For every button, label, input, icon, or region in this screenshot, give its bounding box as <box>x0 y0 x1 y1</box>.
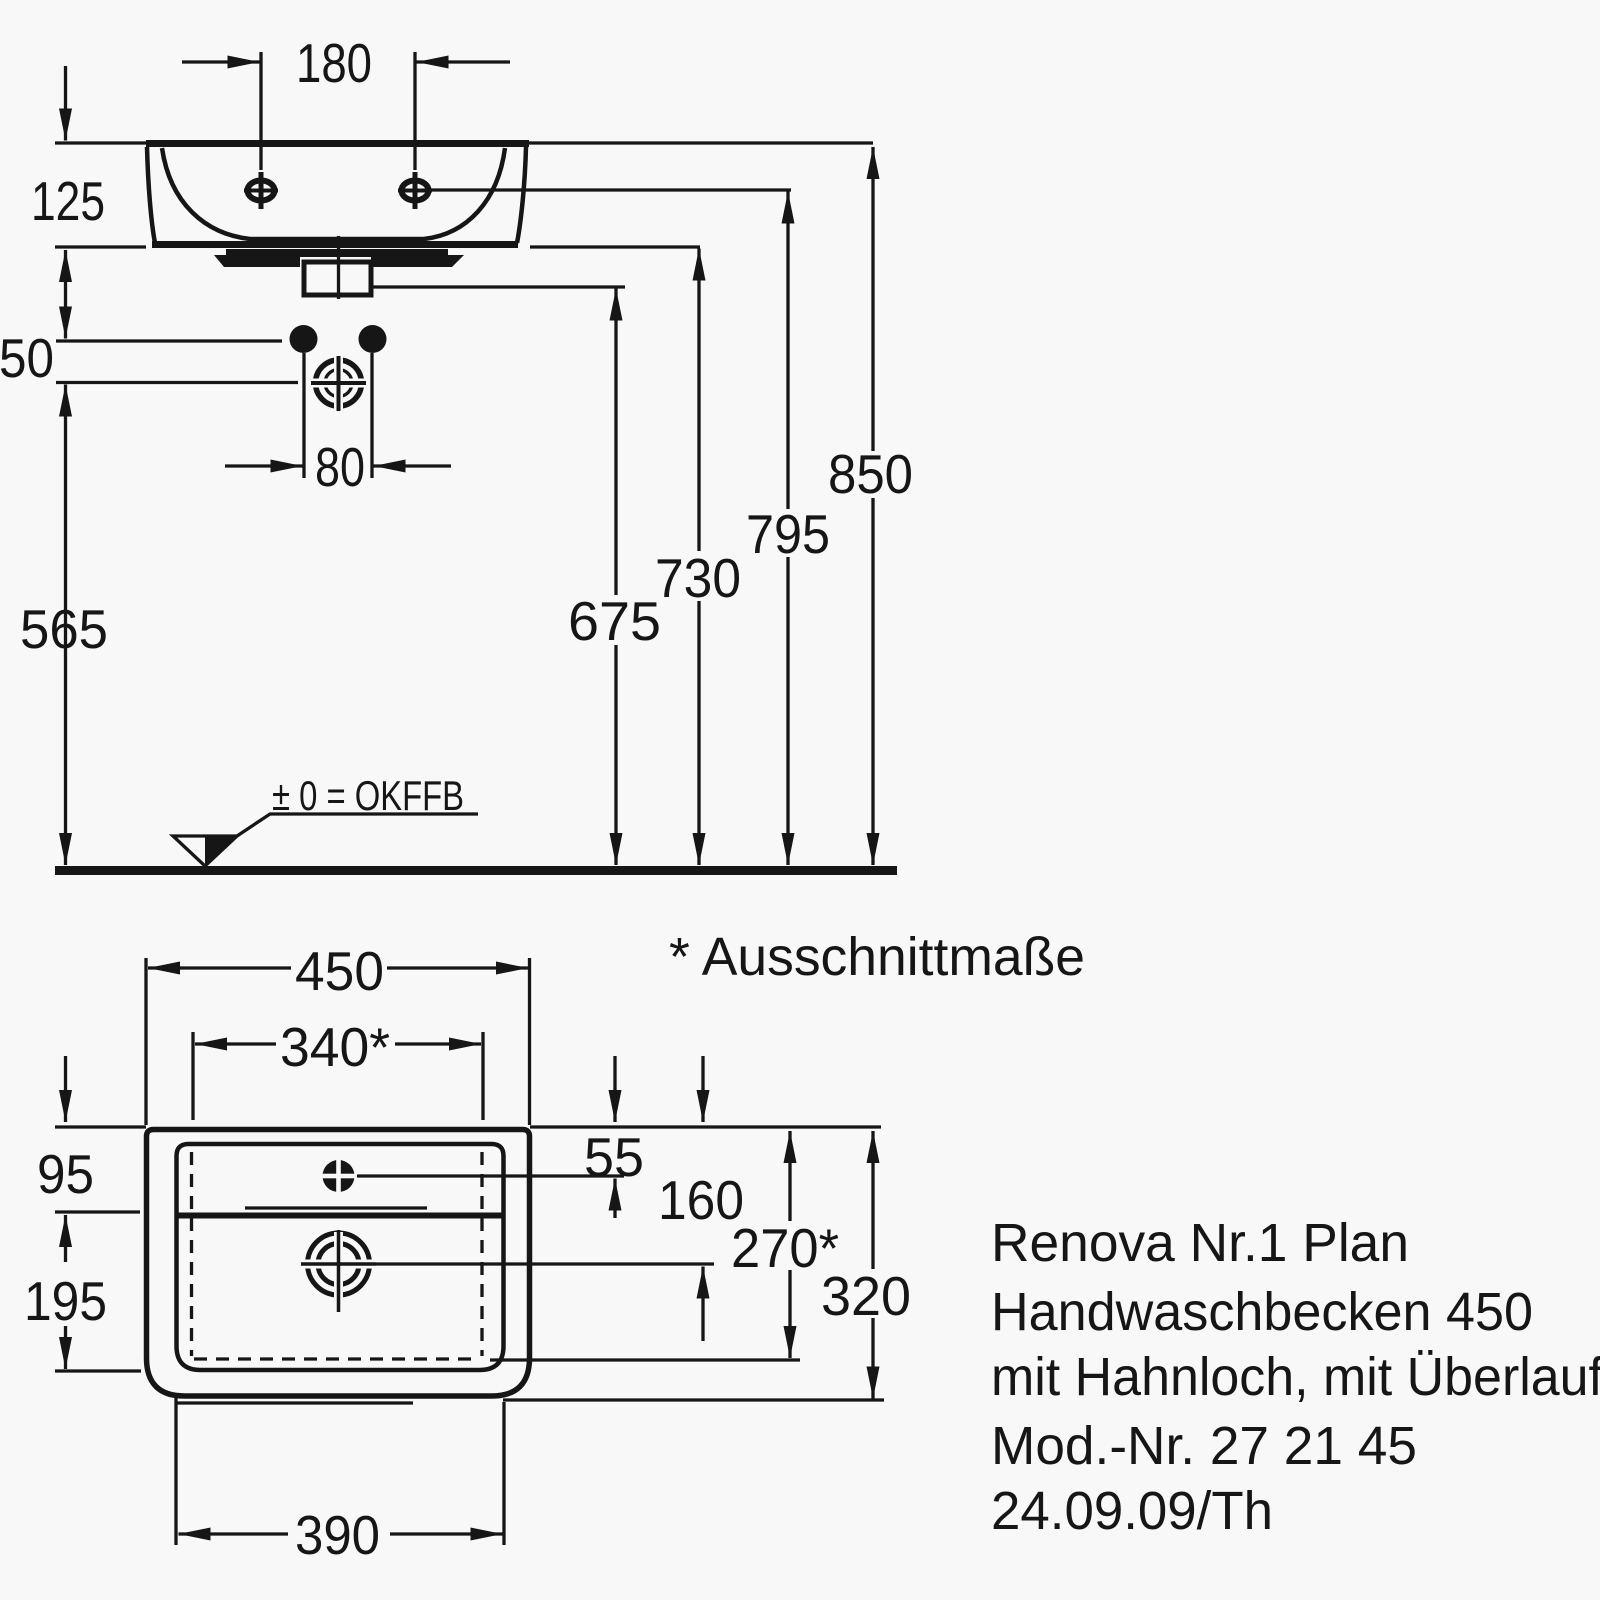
wire: plan left ref y=1212 (deck front) <box>55 1210 140 1213</box>
dim 270 vertical <box>788 1131 791 1358</box>
basin cutout dashed left <box>190 1152 193 1356</box>
plan drain <box>301 1230 376 1312</box>
svg-text:Mod.-Nr. 27 21 45: Mod.-Nr. 27 21 45 <box>991 1416 1417 1476</box>
dim 390 tick right <box>502 1402 505 1545</box>
plan outer outline <box>147 1130 530 1397</box>
wire: faucet leader y=1176 <box>357 1174 624 1177</box>
sink body top edge (bold) <box>146 140 529 147</box>
dim 340 right arrow <box>395 1042 481 1045</box>
wire: plan left ref y=1371 (basin rear) <box>55 1369 141 1372</box>
dim 180 right arrow <box>417 60 511 63</box>
label 795 <box>741 503 836 565</box>
wire: faucet-hole leader y=190 (795 ref) <box>429 188 791 191</box>
svg-text:850: 850 <box>828 443 913 505</box>
dim 80 left arrow <box>225 464 303 467</box>
dim 55 top arrow <box>613 1056 616 1122</box>
label 270 <box>726 1217 843 1279</box>
svg-text:195: 195 <box>24 1270 107 1332</box>
wire: plan bottom reference y=1400 <box>503 1398 884 1401</box>
sink body left edge <box>147 147 155 243</box>
ground line <box>55 866 897 875</box>
dim 160 bottom arrow <box>701 1267 704 1342</box>
svg-text:390: 390 <box>295 1504 380 1566</box>
dim 55 bottom arrow <box>613 1179 616 1219</box>
dim 180 tick right <box>413 52 416 170</box>
label 320 <box>816 1265 916 1327</box>
label 850 <box>823 443 919 505</box>
svg-text:795: 795 <box>746 503 830 565</box>
dim 730 vertical <box>697 249 700 866</box>
wire: holes leader line y=341 <box>56 339 282 342</box>
svg-text:Renova Nr.1 Plan: Renova Nr.1 Plan <box>991 1213 1409 1273</box>
dim 565 vertical line <box>64 385 67 866</box>
dim 450 tick left <box>144 958 147 1125</box>
wire: sink bottom reference y=246 left segment <box>55 245 146 248</box>
wire: top reference line y=143 (850 ref) <box>55 141 873 144</box>
plan inner rim outline <box>177 1144 504 1370</box>
drain box centerline <box>337 236 340 299</box>
dim 390 left arrow <box>179 1532 289 1535</box>
dim 95 top arrow <box>64 1056 67 1122</box>
wire: sink bottom reference y=246 right segment (730 ref) <box>530 245 700 248</box>
wire: plan left ref y=1127 <box>55 1125 146 1128</box>
dim 80 tick right <box>370 353 373 478</box>
dim 850 vertical <box>871 147 874 865</box>
dim 180 tick left <box>259 52 262 170</box>
dim 320 vertical <box>871 1131 874 1399</box>
dim 125/holes double arrow <box>64 250 67 339</box>
sink body bottom edge (bold) <box>152 241 518 248</box>
dim 675 vertical <box>614 289 617 866</box>
svg-text:± 0 = OKFFB: ± 0 = OKFFB <box>272 772 464 819</box>
dim 340 tick right <box>481 1032 484 1120</box>
svg-text:80: 80 <box>315 436 365 498</box>
mounting hole right (filled) <box>359 325 387 353</box>
dim 195 top arrow <box>64 1215 67 1262</box>
svg-text:125: 125 <box>31 170 105 232</box>
dim 340 tick left <box>191 1032 194 1120</box>
dim 80 right arrow <box>374 464 452 467</box>
svg-text:180: 180 <box>296 32 372 94</box>
svg-text:675: 675 <box>568 590 661 652</box>
dim 160 top arrow <box>701 1056 704 1122</box>
dim 340 left arrow <box>195 1042 276 1045</box>
dim 390 tick left <box>174 1398 177 1545</box>
svg-text:* Ausschnittmaße: * Ausschnittmaße <box>669 927 1085 987</box>
dim 390 right arrow <box>390 1532 503 1535</box>
svg-text:450: 450 <box>295 940 384 1002</box>
svg-text:50: 50 <box>0 327 54 389</box>
basin cutout dashed right <box>480 1152 483 1356</box>
dim 195 bottom arrow <box>64 1326 67 1369</box>
wire: drain leader y=1264 <box>376 1262 714 1265</box>
svg-text:55: 55 <box>584 1126 644 1188</box>
dim 795 vertical <box>786 192 789 866</box>
faucet hole right (elevation) <box>398 172 432 209</box>
basin cutout dashed bottom <box>194 1357 479 1360</box>
svg-text:565: 565 <box>20 598 108 660</box>
wire: drain leader line y=382.5 <box>56 381 298 384</box>
dim 450 right arrow <box>387 966 528 969</box>
svg-text:mit Hahnloch, mit Überlauf: mit Hahnloch, mit Überlauf <box>991 1347 1600 1407</box>
dim 80 tick left <box>302 353 305 478</box>
svg-text:730: 730 <box>655 547 741 609</box>
label 730 <box>650 547 747 609</box>
label 675 <box>563 590 665 652</box>
drain symbol (elevation) <box>311 356 366 411</box>
mounting hole left (filled) <box>290 325 318 353</box>
wire: shadow line under front edge <box>177 1401 413 1404</box>
dim 125 top arrow <box>64 66 67 141</box>
datum symbol (OKFFB) <box>173 814 478 866</box>
wire: 675 reference line y=287 <box>371 285 625 288</box>
wire: basin rear extension y=1360 <box>490 1358 800 1361</box>
dim 450 left arrow <box>148 966 291 969</box>
siphon/drain box <box>304 262 371 295</box>
dim 450 tick right <box>528 958 531 1125</box>
svg-text:95: 95 <box>37 1143 94 1205</box>
plan faucet hole <box>321 1159 356 1194</box>
sink body right edge <box>517 147 526 243</box>
svg-text:340*: 340* <box>280 1016 390 1078</box>
under-rim shadow band <box>214 249 464 267</box>
svg-text:Handwaschbecken 450: Handwaschbecken 450 <box>991 1282 1533 1342</box>
svg-text:24.09.09/Th: 24.09.09/Th <box>991 1481 1273 1541</box>
deck front bold line <box>178 1213 503 1219</box>
deck back thin line <box>245 1206 427 1209</box>
wire: plan top edge reference to right y=1127 <box>530 1125 881 1128</box>
svg-text:320: 320 <box>821 1265 911 1327</box>
dim 180 left arrow <box>182 60 260 63</box>
faucet hole left (elevation) <box>244 172 278 209</box>
basin interior curve <box>162 148 505 239</box>
